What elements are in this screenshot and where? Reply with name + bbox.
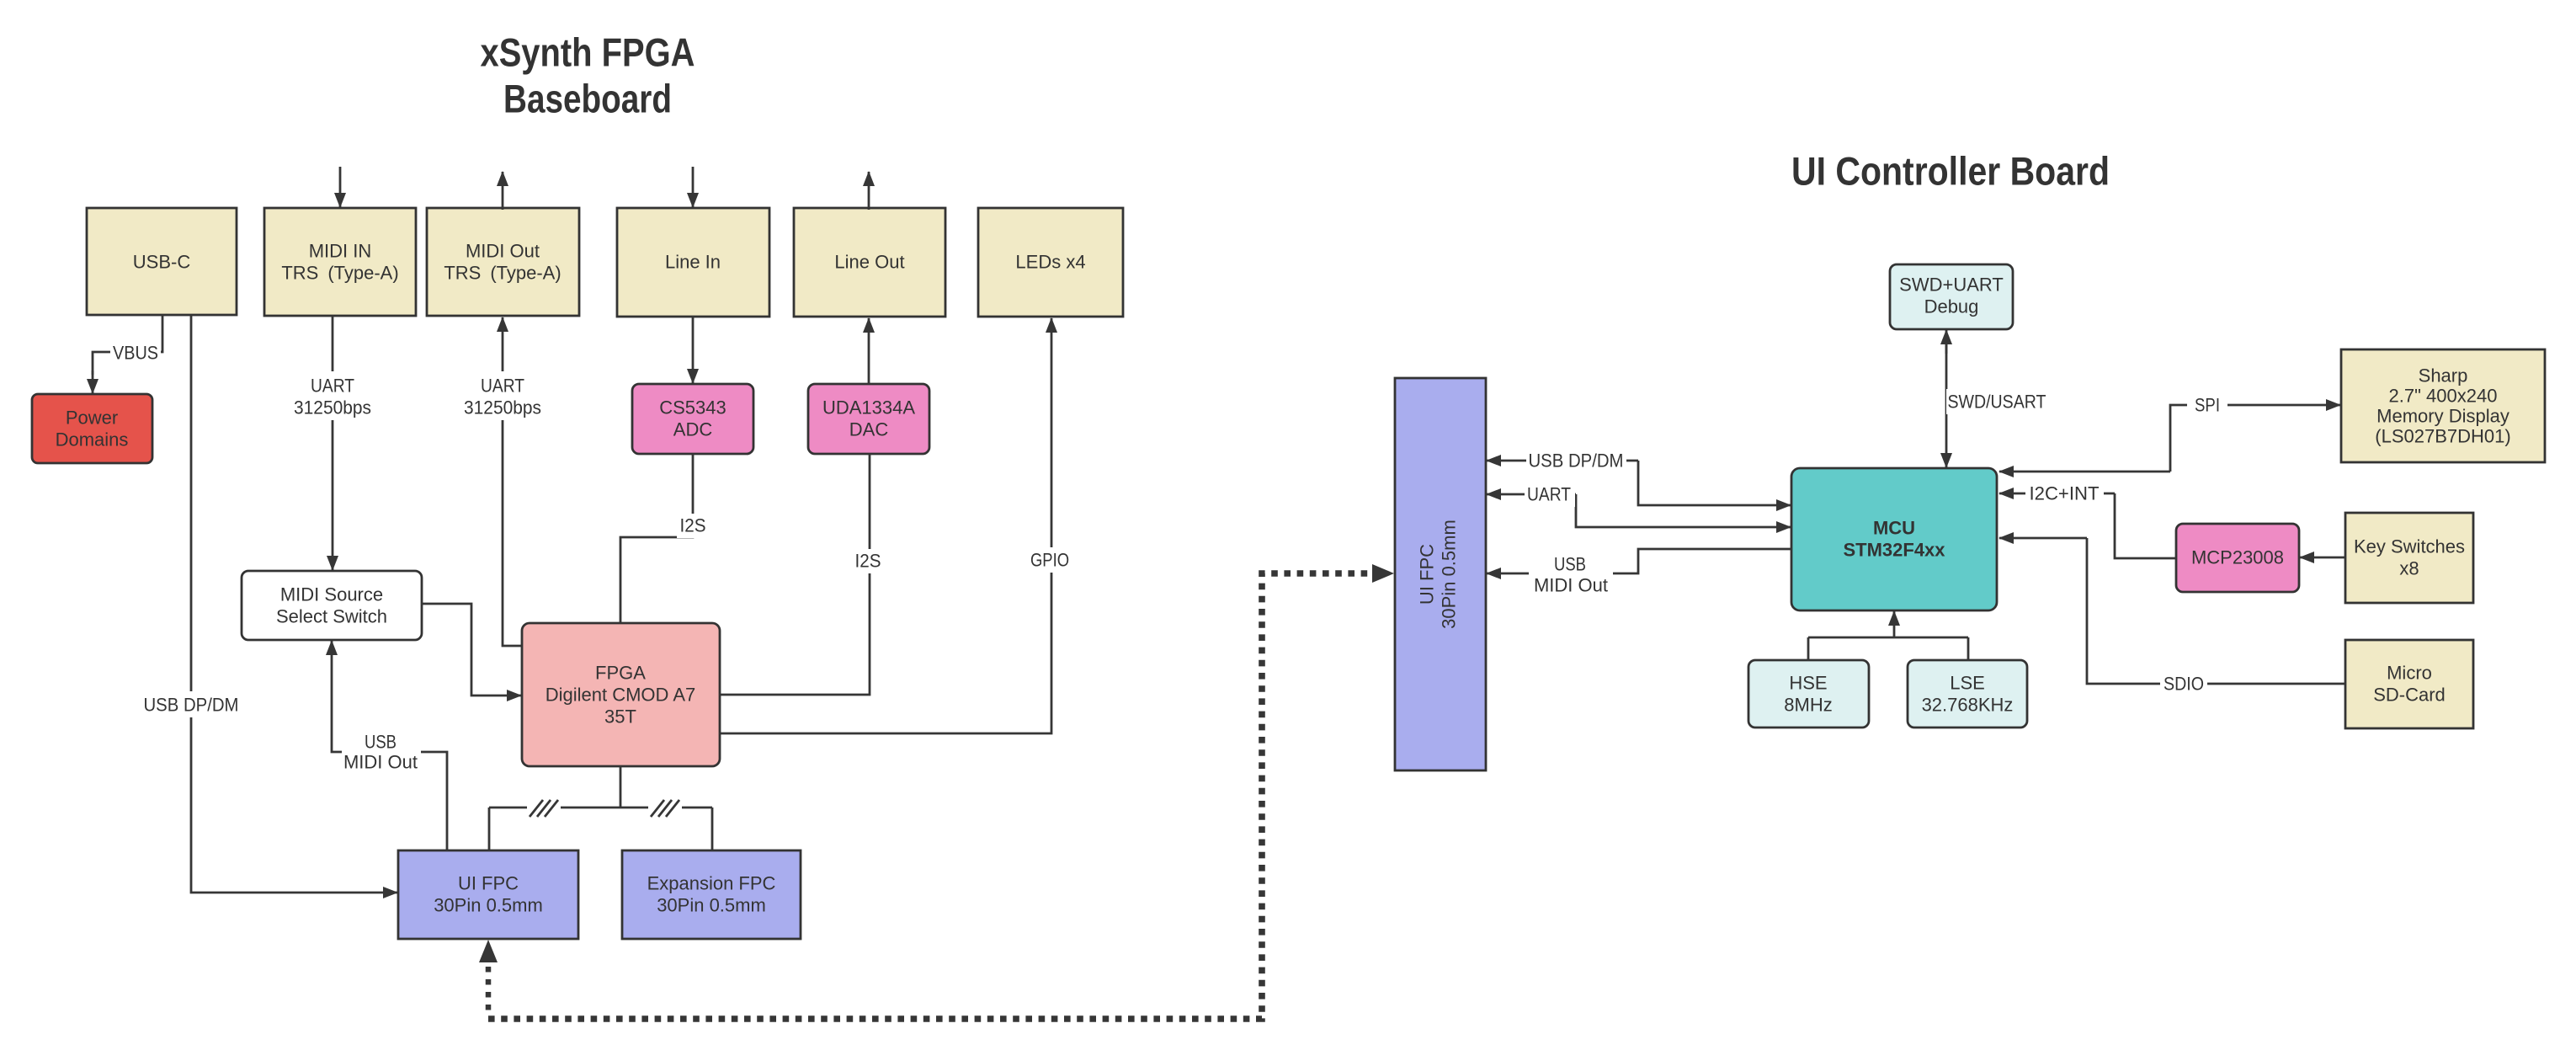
svg-text:ADC: ADC	[673, 419, 713, 440]
wire USB MIDI Out: UI FPC to switch	[332, 641, 447, 850]
title xSynth FPGA Baseboard	[481, 30, 695, 121]
svg-text:LEDs x4: LEDs x4	[1015, 252, 1085, 273]
wire clocks to MCU	[1808, 611, 1968, 660]
box Expansion FPC 30Pin 0.5mm	[622, 850, 801, 939]
title UI Controller Board	[1791, 149, 2110, 194]
svg-text:I2S: I2S	[680, 515, 706, 536]
svg-text:TRS (Type-A): TRS (Type-A)	[444, 263, 561, 284]
svg-text:MIDI Out: MIDI Out	[343, 752, 418, 773]
svg-text:Line Out: Line Out	[834, 252, 904, 273]
wire FPGA bottom bus split	[489, 766, 712, 850]
svg-text:2.7" 400x240: 2.7" 400x240	[2389, 386, 2498, 407]
wire UART 31250bps: MIDI IN to MIDI Source Select Switch	[288, 316, 377, 570]
bus hash marks right ///	[648, 797, 682, 818]
svg-text:Memory Display: Memory Display	[2376, 406, 2509, 427]
wire UART 31250bps: FPGA to MIDI Out	[458, 317, 547, 646]
svg-text:UI FPC: UI FPC	[458, 873, 519, 894]
arrow out of MIDI Out top	[502, 172, 504, 210]
box UI FPC 30Pin 0.5mm (baseboard)	[398, 850, 578, 939]
svg-text:MCU: MCU	[1873, 518, 1915, 539]
wire VBUS: USB-C to Power Domains	[93, 315, 162, 393]
svg-text:MIDI IN: MIDI IN	[309, 241, 372, 262]
svg-text:CS5343: CS5343	[659, 397, 726, 418]
arrow out of Line Out top	[868, 172, 870, 210]
svg-text:HSE: HSE	[1789, 673, 1827, 694]
wire USB DP/DM: USB-C to UI FPC	[141, 315, 397, 893]
svg-text:TRS (Type-A): TRS (Type-A)	[281, 263, 398, 284]
arrow into Line In top	[692, 167, 695, 207]
svg-text:xSynth FPGA: xSynth FPGA	[481, 30, 695, 75]
svg-text:30Pin 0.5mm: 30Pin 0.5mm	[657, 895, 766, 916]
svg-text:MIDI Source: MIDI Source	[280, 584, 383, 605]
svg-text:I2S: I2S	[855, 551, 881, 572]
wire SDIO: MCU to Micro SD-Card	[1999, 538, 2345, 696]
box MIDI Out TRS (Type-A)	[427, 208, 579, 316]
svg-text:30Pin 0.5mm: 30Pin 0.5mm	[1439, 520, 1460, 629]
svg-text:30Pin 0.5mm: 30Pin 0.5mm	[434, 895, 543, 916]
svg-text:UART: UART	[1527, 484, 1571, 505]
box UDA1334A DAC	[808, 384, 929, 454]
svg-text:VBUS: VBUS	[113, 343, 158, 364]
svg-text:SWD+UART: SWD+UART	[1899, 274, 2004, 296]
svg-text:Expansion FPC: Expansion FPC	[647, 873, 776, 894]
wire I2C+INT: MCU to MCP23008	[1999, 481, 2176, 558]
svg-text:UI FPC: UI FPC	[1417, 544, 1438, 605]
box Line In	[617, 208, 769, 317]
svg-text:MIDI Out: MIDI Out	[1534, 575, 1608, 596]
svg-text:STM32F4xx: STM32F4xx	[1843, 540, 1945, 561]
svg-text:SDIO: SDIO	[2164, 674, 2204, 695]
svg-text:31250bps: 31250bps	[294, 397, 371, 418]
wire SPI: MCU to Sharp display	[1999, 392, 2340, 472]
box CS5343 ADC	[632, 384, 753, 454]
svg-text:USB: USB	[1554, 554, 1586, 575]
svg-text:x8: x8	[2399, 558, 2419, 579]
bus hash marks left ///	[527, 797, 561, 818]
svg-text:Baseboard: Baseboard	[503, 77, 672, 121]
box MIDI IN TRS (Type-A)	[264, 208, 416, 316]
svg-text:USB: USB	[365, 732, 397, 753]
arrow into MIDI IN top	[339, 167, 342, 207]
svg-text:8MHz: 8MHz	[1784, 695, 1832, 716]
svg-text:FPGA: FPGA	[595, 663, 646, 684]
svg-text:(LS027B7DH01): (LS027B7DH01)	[2375, 426, 2510, 447]
box Key Switches x8	[2345, 513, 2473, 603]
svg-text:MIDI Out: MIDI Out	[466, 241, 540, 262]
svg-text:Domains: Domains	[56, 429, 129, 450]
box Micro SD-Card	[2345, 640, 2473, 728]
box LSE 32.768KHz	[1908, 660, 2027, 728]
arrow UDA1334A to Line Out	[868, 318, 870, 384]
box SWD+UART Debug	[1890, 264, 2013, 329]
svg-text:LSE: LSE	[1950, 673, 1985, 694]
svg-text:GPIO: GPIO	[1030, 550, 1069, 571]
wire UART: MCU to UI FPC	[1487, 482, 1791, 527]
box MCP23008	[2176, 524, 2299, 592]
wire I2S: FPGA to UDA1334A	[720, 454, 884, 695]
svg-text:MCP23008: MCP23008	[2191, 547, 2284, 568]
svg-text:SD-Card: SD-Card	[2373, 685, 2446, 706]
box Line Out	[794, 208, 945, 317]
wire switch to FPGA	[421, 604, 521, 696]
svg-text:Power: Power	[66, 408, 118, 429]
svg-text:Debug: Debug	[1924, 296, 1979, 317]
arrow Key Switches to MCP23008	[2300, 557, 2345, 559]
wire GPIO: FPGA to LEDs x4	[720, 318, 1076, 733]
svg-text:DAC: DAC	[849, 419, 889, 440]
svg-text:Micro: Micro	[2387, 663, 2432, 684]
svg-text:UI Controller Board: UI Controller Board	[1791, 149, 2110, 194]
svg-text:USB DP/DM: USB DP/DM	[1529, 450, 1624, 472]
box UI FPC 30Pin 0.5mm (controller, vertical)	[1395, 378, 1486, 770]
box LEDs x4	[978, 208, 1123, 317]
arrow Line In to CS5343	[692, 317, 695, 383]
svg-text:Key Switches: Key Switches	[2354, 536, 2465, 557]
wire USB MIDI Out: MCU to UI FPC	[1487, 549, 1791, 596]
svg-text:UDA1334A: UDA1334A	[822, 397, 915, 418]
svg-text:I2C+INT: I2C+INT	[2030, 483, 2100, 504]
svg-text:USB-C: USB-C	[133, 252, 191, 273]
wire USB DP/DM: MCU to UI FPC	[1487, 448, 1791, 505]
svg-text:Line In: Line In	[665, 252, 721, 273]
box Power Domains	[32, 394, 152, 463]
svg-text:USB DP/DM: USB DP/DM	[144, 695, 239, 716]
svg-text:31250bps: 31250bps	[464, 397, 541, 418]
svg-text:Sharp: Sharp	[2419, 365, 2468, 386]
svg-text:Digilent CMOD A7: Digilent CMOD A7	[546, 685, 696, 706]
box USB-C	[87, 208, 237, 315]
dotted wire UI FPC baseboard to UI FPC controller	[479, 564, 1394, 1019]
svg-text:SWD/USART: SWD/USART	[1948, 392, 2046, 413]
wire I2S: CS5343 to FPGA	[620, 454, 709, 623]
svg-text:35T: 35T	[604, 706, 636, 728]
svg-text:SPI: SPI	[2195, 395, 2220, 416]
box MIDI Source Select Switch	[242, 571, 422, 640]
box MCU STM32F4xx	[1791, 468, 1997, 610]
svg-text:UART: UART	[481, 376, 524, 397]
box HSE 8MHz	[1748, 660, 1869, 728]
box FPGA Digilent CMOD A7 35T	[522, 623, 720, 766]
svg-text:32.768KHz: 32.768KHz	[1922, 695, 2014, 716]
wire SWD/USART: Debug to MCU both arrows	[1946, 330, 2049, 467]
svg-text:Select Switch: Select Switch	[276, 606, 387, 627]
box Sharp Memory Display	[2341, 349, 2545, 462]
svg-text:UART: UART	[311, 376, 354, 397]
